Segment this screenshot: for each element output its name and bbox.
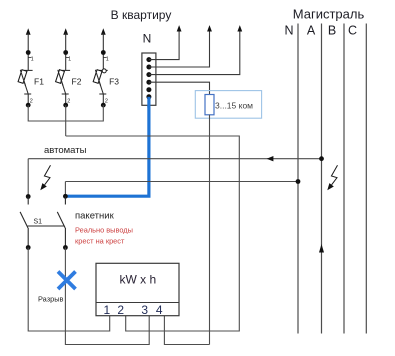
- wire: pin1 to apartment arrow 1: [149, 31, 179, 60]
- switch S1 (left pole of packet switch): [20, 194, 42, 250]
- callout box around R1: [195, 91, 261, 119]
- wire: bus joining F1 F2 F3 bottoms: [28, 105, 103, 121]
- svg-text:3: 3: [141, 303, 148, 317]
- junction on A line: [319, 156, 324, 161]
- break mark X (Разрыв): [58, 272, 76, 290]
- svg-text:B: B: [328, 24, 336, 38]
- wire: Магистраль C vertical line: [365, 24, 367, 334]
- svg-text:В квартиру: В квартиру: [111, 8, 172, 22]
- wire: neutral feed from Магистраль N: [65, 181, 298, 183]
- arrowhead on phase feed (points left): [267, 156, 274, 161]
- wire: pin3 to apartment arrow 3: [149, 31, 240, 75]
- svg-text:2: 2: [105, 98, 108, 104]
- svg-text:kW x h: kW x h: [119, 273, 156, 287]
- svg-text:N: N: [143, 32, 152, 46]
- wire: drop to packet switch right pole: [64, 182, 66, 197]
- svg-text:пакетник: пакетник: [75, 211, 115, 222]
- svg-text:Магистраль: Магистраль: [293, 7, 365, 22]
- svg-text:N: N: [284, 24, 293, 38]
- wire: lower bus to T2 riser: [66, 136, 240, 331]
- wire: left drop to S1: [27, 159, 29, 197]
- wire: Магистраль B vertical line: [343, 24, 345, 334]
- wire: pin4 to resistor R1: [149, 82, 210, 94]
- svg-text:F2: F2: [72, 77, 82, 87]
- svg-text:1: 1: [68, 57, 71, 63]
- svg-text:F1: F1: [34, 77, 44, 87]
- terminal block pin 1: [146, 57, 151, 62]
- switch right pole of packet switch: [57, 194, 68, 250]
- terminal block pin 3: [146, 72, 151, 77]
- arrow up on Магистраль A line: [319, 244, 324, 253]
- wire: pin2 to apartment arrow 2: [149, 31, 210, 68]
- svg-text:Разрыв: Разрыв: [38, 295, 64, 304]
- svg-text:4: 4: [156, 303, 163, 317]
- wire: left pole down to meter terminal 1: [28, 248, 110, 332]
- svg-text:1: 1: [103, 303, 110, 317]
- fuse-switch F3: [93, 28, 119, 107]
- wire: R1 down to bottom row: [209, 115, 211, 345]
- svg-text:C: C: [348, 24, 357, 38]
- svg-text:F3: F3: [109, 77, 119, 87]
- svg-text:Реально выводы: Реально выводы: [75, 226, 133, 235]
- svg-text:2: 2: [67, 98, 70, 104]
- wire: phase A feed line to breakers: [28, 158, 321, 160]
- trip symbol (right lightning, on Магистраль): [327, 165, 337, 190]
- wire: blue neutral exiting block: [147, 97, 150, 108]
- wire: Магистраль A vertical line: [321, 24, 323, 334]
- wire: blue neutral from terminal block: [65, 98, 148, 197]
- wire: Магистраль N vertical line: [297, 24, 299, 334]
- terminal block pin 5: [146, 87, 151, 92]
- wire: right pole down to meter terminal 3: [65, 248, 149, 345]
- svg-text:1: 1: [106, 57, 109, 63]
- energy meter kW x h: [96, 263, 179, 317]
- resistor R1: [205, 95, 214, 115]
- terminal block X1: [142, 53, 156, 105]
- svg-text:A: A: [307, 24, 316, 38]
- svg-text:S1: S1: [34, 219, 43, 226]
- svg-text:автоматы: автоматы: [44, 145, 87, 156]
- terminal block pin 2: [146, 65, 151, 70]
- svg-text:2: 2: [117, 303, 124, 317]
- fuse-switch F1: [18, 28, 44, 107]
- svg-text:2: 2: [30, 98, 33, 104]
- breaker trip symbol (left lightning): [40, 165, 50, 190]
- wire: meter terminal 4 to resistor drop: [164, 316, 209, 345]
- svg-text:1: 1: [31, 57, 34, 63]
- svg-text:крест на крест: крест на крест: [75, 237, 125, 246]
- wire: F2 drop to lower bus: [65, 105, 67, 136]
- mechanical link of packet switch: [28, 225, 65, 227]
- terminal block pin 4: [146, 80, 151, 85]
- terminal block pin 6: [146, 94, 151, 99]
- junction on N line: [296, 179, 301, 184]
- svg-text:3...15 ком: 3...15 ком: [215, 101, 253, 111]
- fuse-switch F2: [56, 28, 82, 107]
